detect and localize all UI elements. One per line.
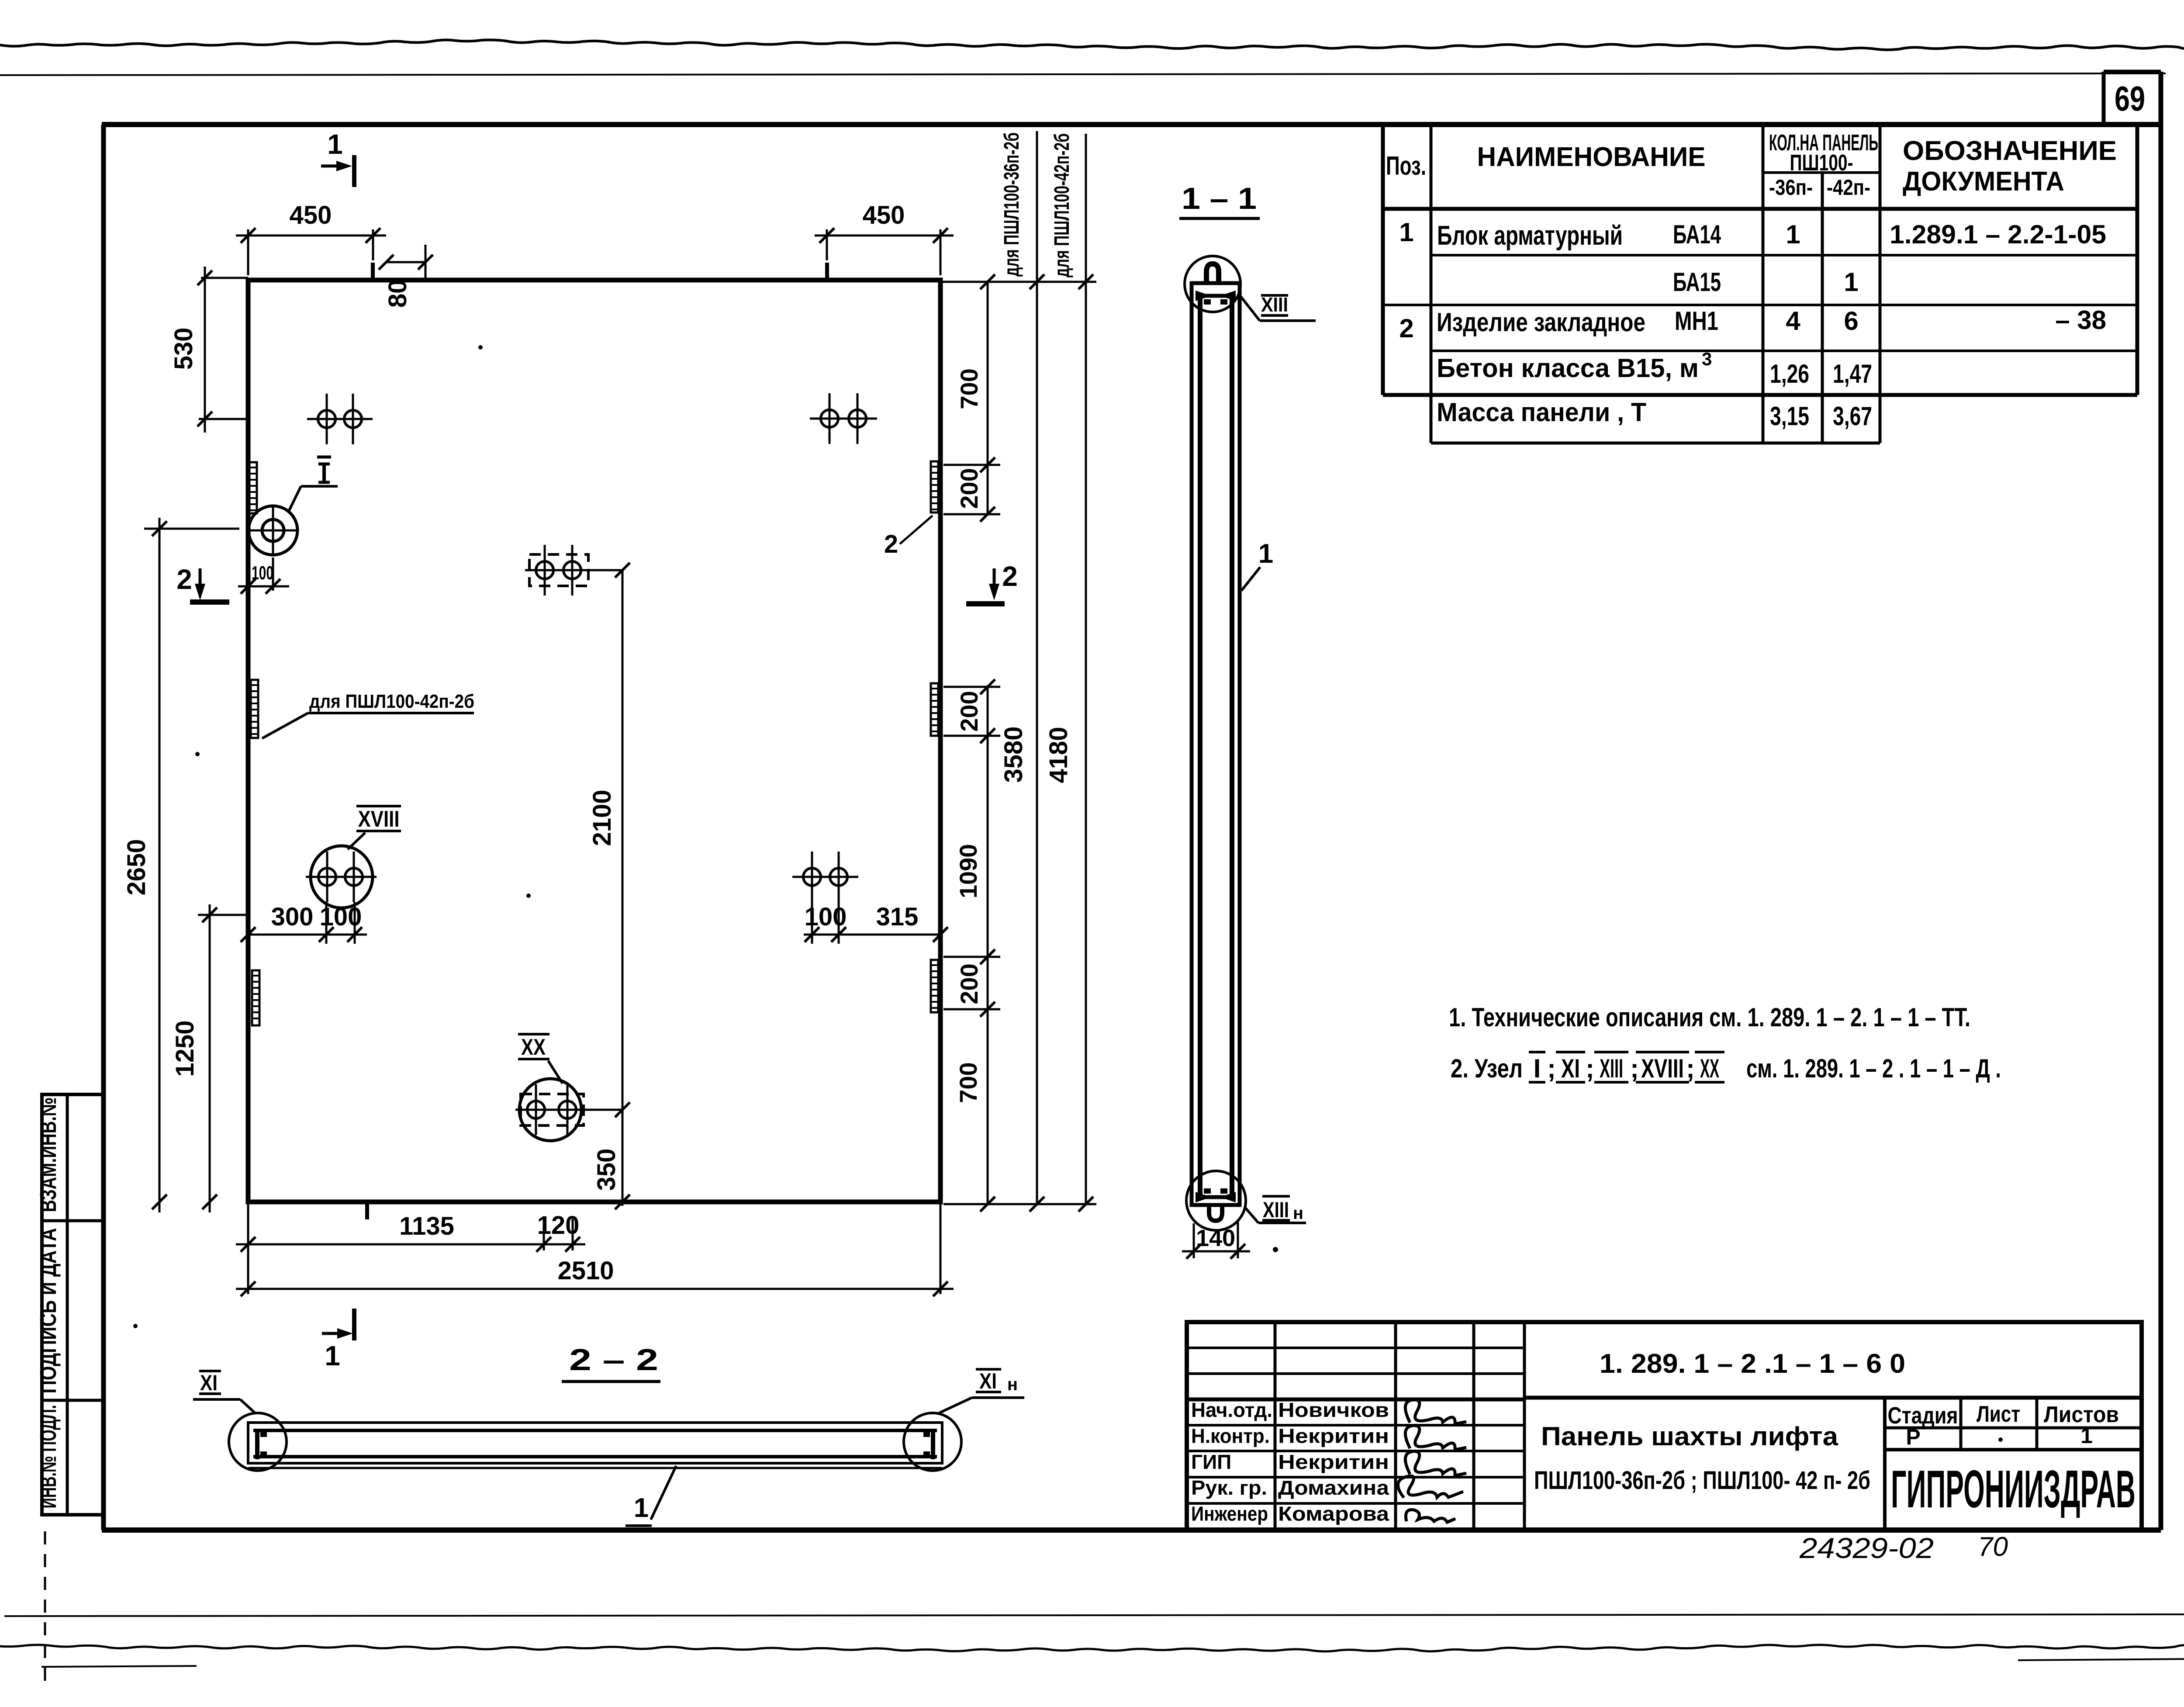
svg-text:2: 2 (176, 564, 192, 595)
svg-text:1: 1 (327, 128, 343, 160)
svg-text:4180: 4180 (1044, 727, 1073, 783)
svg-text:2: 2 (1399, 314, 1413, 343)
svg-text:1: 1 (1399, 218, 1413, 247)
svg-text:Р: Р (1906, 1425, 1920, 1449)
svg-text:1,47: 1,47 (1833, 359, 1872, 388)
svg-text:700: 700 (954, 1062, 982, 1103)
svg-text:МН1: МН1 (1675, 306, 1718, 336)
svg-text:2: 2 (884, 530, 898, 558)
svg-text:ПОДПИСЬ И ДАТА: ПОДПИСЬ И ДАТА (36, 1228, 61, 1394)
svg-text:Некритин: Некритин (1278, 1424, 1389, 1447)
svg-text:Рук. гр.: Рук. гр. (1191, 1476, 1267, 1499)
svg-text:1: 1 (634, 1493, 649, 1523)
svg-text:1: 1 (2080, 1423, 2093, 1448)
svg-text:;: ; (1586, 1054, 1594, 1083)
svg-text:315: 315 (876, 903, 919, 931)
svg-text:ПШ100-: ПШ100- (1790, 150, 1853, 176)
svg-text:Панель шахты лифта: Панель шахты лифта (1541, 1422, 1838, 1451)
svg-text:100: 100 (252, 562, 273, 584)
svg-text:450: 450 (863, 201, 905, 229)
svg-text:1. Технические описания см. 1.: 1. Технические описания см. 1. 289. 1 – … (1449, 1003, 1970, 1032)
svg-text:Новичков: Новичков (1278, 1399, 1389, 1421)
svg-text:1135: 1135 (399, 1212, 454, 1240)
svg-text:1. 289. 1 – 2 .1 – 1 – 6 0: 1. 289. 1 – 2 .1 – 1 – 6 0 (1600, 1349, 1905, 1379)
svg-text:2650: 2650 (122, 839, 151, 895)
svg-text:1090: 1090 (954, 844, 982, 899)
svg-text:ВЗАМ.ИНВ.№: ВЗАМ.ИНВ.№ (36, 1098, 61, 1212)
svg-text:200: 200 (955, 468, 983, 509)
svg-text:2 – 2: 2 – 2 (569, 1343, 658, 1377)
svg-text:Комарова: Комарова (1278, 1503, 1389, 1525)
svg-text:3: 3 (1702, 349, 1712, 369)
svg-text:ГИП: ГИП (1191, 1451, 1231, 1473)
svg-text:-36п-: -36п- (1769, 175, 1813, 200)
svg-text:3580: 3580 (999, 726, 1028, 783)
svg-text:530: 530 (169, 328, 198, 370)
svg-text:80: 80 (384, 280, 412, 308)
svg-text:для ПШЛ100-42п-2б: для ПШЛ100-42п-2б (309, 691, 474, 712)
svg-text:Масса панели , Т: Масса панели , Т (1437, 398, 1646, 427)
svg-text:XVIII: XVIII (1641, 1054, 1684, 1083)
svg-text:70: 70 (1978, 1532, 2008, 1562)
svg-text:БА14: БА14 (1673, 220, 1721, 249)
svg-text:;: ; (1630, 1054, 1639, 1083)
svg-text:БА15: БА15 (1673, 267, 1721, 297)
svg-text:Поз.: Поз. (1386, 151, 1426, 180)
svg-text:350: 350 (592, 1149, 621, 1191)
svg-text:1250: 1250 (171, 1020, 199, 1077)
svg-text:2510: 2510 (557, 1257, 614, 1285)
svg-text:ИНВ.№ ПОДЛ.: ИНВ.№ ПОДЛ. (36, 1405, 61, 1509)
svg-text:-42п-: -42п- (1827, 175, 1870, 200)
svg-text:300: 300 (271, 903, 314, 931)
svg-text:XIII: XIII (1600, 1054, 1623, 1083)
svg-text:700: 700 (955, 368, 983, 409)
svg-text:24329-02: 24329-02 (1799, 1532, 1934, 1564)
svg-text:Лист: Лист (1977, 1402, 2020, 1427)
svg-text:Домахина: Домахина (1278, 1476, 1389, 1499)
svg-text:1 – 1: 1 – 1 (1182, 181, 1257, 215)
svg-text:Некритин: Некритин (1278, 1451, 1389, 1473)
svg-text:3,67: 3,67 (1833, 402, 1872, 431)
svg-text:200: 200 (955, 691, 983, 731)
svg-text:для ПШЛ100-42п-2б: для ПШЛ100-42п-2б (1051, 133, 1074, 277)
svg-text:Нач.отд.: Нач.отд. (1191, 1399, 1272, 1421)
svg-text:ГИПРОНИИЗДРАВ: ГИПРОНИИЗДРАВ (1891, 1459, 2136, 1519)
svg-text:XIII: XIII (1263, 1198, 1289, 1222)
svg-text:3,15: 3,15 (1770, 402, 1809, 431)
svg-text:XI: XI (200, 1371, 218, 1395)
svg-text:2. Узел: 2. Узел (1451, 1054, 1523, 1083)
svg-text:;: ; (1686, 1054, 1695, 1083)
svg-text:1: 1 (325, 1340, 340, 1371)
svg-text:XVIII: XVIII (358, 807, 400, 832)
svg-text:6: 6 (1844, 306, 1858, 336)
svg-text:1: 1 (1258, 539, 1273, 569)
svg-text:ДОКУМЕНТА: ДОКУМЕНТА (1903, 166, 2064, 197)
svg-text:для ПШЛ100-36п-2б: для ПШЛ100-36п-2б (1000, 132, 1023, 277)
svg-text:Изделие закладное: Изделие закладное (1437, 308, 1645, 337)
svg-text:1.289.1 – 2.2-1-05: 1.289.1 – 2.2-1-05 (1890, 220, 2106, 249)
svg-text:– 38: – 38 (2055, 305, 2106, 335)
svg-text:ПШЛ100-36п-2б ; ПШЛ100- 42 п-: ПШЛ100-36п-2б ; ПШЛ100- 42 п- 2б (1534, 1466, 1870, 1495)
svg-text:1,26: 1,26 (1770, 359, 1809, 388)
svg-text:см. 1. 289. 1 – 2 . 1 – 1 – Д: см. 1. 289. 1 – 2 . 1 – 1 – Д . (1746, 1054, 2001, 1083)
svg-text:ОБОЗНАЧЕНИЕ: ОБОЗНАЧЕНИЕ (1903, 136, 2117, 166)
svg-text:Н.контр.: Н.контр. (1191, 1424, 1270, 1447)
svg-text:69: 69 (2115, 79, 2145, 118)
svg-text:Инженер: Инженер (1191, 1503, 1268, 1525)
svg-text:4: 4 (1786, 306, 1800, 336)
svg-text:XI: XI (1561, 1054, 1580, 1083)
svg-text:Блок арматурный: Блок арматурный (1437, 221, 1623, 251)
svg-text:XX: XX (1700, 1054, 1719, 1083)
svg-text:XX: XX (521, 1035, 546, 1060)
svg-text:1: 1 (1844, 267, 1858, 297)
svg-text:н: н (1293, 1204, 1303, 1223)
svg-text:Стадия: Стадия (1888, 1402, 1958, 1429)
svg-text:450: 450 (290, 201, 332, 229)
svg-text:Бетон класса В15, м: Бетон класса В15, м (1437, 353, 1699, 383)
svg-text:НАИМЕНОВАНИЕ: НАИМЕНОВАНИЕ (1477, 142, 1706, 172)
svg-text:I: I (1534, 1054, 1541, 1083)
svg-text:2: 2 (1002, 561, 1018, 592)
svg-text:2100: 2100 (588, 789, 616, 846)
svg-text:200: 200 (955, 963, 983, 1004)
svg-text:н: н (1007, 1375, 1018, 1394)
svg-text:120: 120 (537, 1211, 580, 1240)
svg-text:XI: XI (979, 1369, 997, 1393)
svg-text:100: 100 (805, 903, 847, 931)
svg-text:;: ; (1547, 1054, 1556, 1083)
svg-text:1: 1 (1786, 220, 1800, 249)
svg-text:140: 140 (1196, 1225, 1235, 1251)
